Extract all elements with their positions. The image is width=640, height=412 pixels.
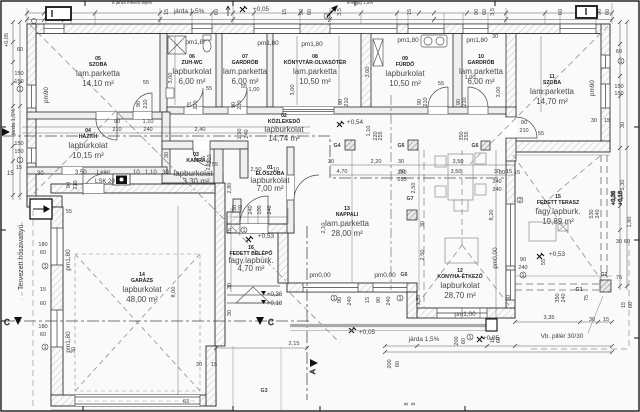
interior hazth horizontal dim bbox=[22, 127, 310, 133]
nappali table bbox=[435, 153, 486, 211]
svg-text:lapburkolat: lapburkolat bbox=[385, 69, 425, 78]
entry door eloszoba bbox=[240, 196, 268, 233]
right dim line bbox=[620, 22, 627, 290]
interior dim vertical room11 bbox=[540, 36, 542, 112]
top corner circle bbox=[32, 19, 37, 24]
svg-text:8: 8 bbox=[404, 402, 410, 405]
top dim vertical extension lines bbox=[27, 3, 612, 24]
sidewalk dashed left bbox=[32, 210, 34, 406]
garage corner dims bbox=[71, 347, 217, 368]
svg-text:Vb. pillér 30/30: Vb. pillér 30/30 bbox=[541, 333, 584, 340]
svg-text:55: 55 bbox=[438, 81, 444, 87]
svg-text:180: 180 bbox=[38, 324, 47, 330]
left circled 1 bbox=[17, 86, 23, 164]
garage cross b bbox=[75, 254, 200, 391]
garage south wall bbox=[51, 395, 216, 406]
svg-text:1,00: 1,00 bbox=[465, 75, 476, 81]
svg-text:240: 240 bbox=[386, 296, 392, 305]
svg-text:210: 210 bbox=[73, 180, 79, 189]
left dim ticks bbox=[11, 20, 22, 197]
eave dims rotated bbox=[490, 293, 634, 343]
garage east wall lower bbox=[206, 346, 216, 406]
room label 10 gardrob bbox=[459, 54, 504, 86]
svg-text:1: 1 bbox=[521, 273, 524, 279]
svg-text:10: 10 bbox=[273, 167, 279, 173]
svg-text:75: 75 bbox=[584, 295, 590, 301]
kamra east wall bbox=[214, 141, 223, 183]
belepo circled 1 bbox=[241, 227, 247, 234]
belepo east wall bbox=[278, 224, 288, 283]
terrace south dashed edge bbox=[515, 284, 600, 290]
room11 east exterior wall bbox=[601, 24, 610, 149]
svg-text:3,50: 3,50 bbox=[453, 159, 464, 165]
svg-text:2,80: 2,80 bbox=[227, 183, 233, 194]
svg-text:150: 150 bbox=[14, 149, 23, 155]
svg-text:15: 15 bbox=[282, 9, 288, 15]
terrace east dashed edge bbox=[601, 155, 607, 278]
hazth door dims bbox=[66, 119, 205, 190]
section marker A bottom bbox=[281, 347, 318, 410]
svg-text:60: 60 bbox=[40, 250, 46, 256]
svg-text:30: 30 bbox=[162, 170, 169, 176]
svg-text:lapburkolat: lapburkolat bbox=[122, 285, 162, 294]
garage window circled bbox=[42, 263, 48, 351]
garage dashed rect bbox=[75, 254, 200, 391]
svg-text:ZUH-WC: ZUH-WC bbox=[181, 60, 202, 66]
svg-text:2,50: 2,50 bbox=[420, 250, 426, 261]
55 labels bbox=[143, 75, 547, 265]
svg-text:KÖZLEKEDŐ: KÖZLEKEDŐ bbox=[268, 118, 301, 125]
svg-text:FÜRDŐ: FÜRDŐ bbox=[396, 61, 414, 68]
svg-text:90: 90 bbox=[337, 297, 343, 303]
svg-text:2,50: 2,50 bbox=[251, 167, 262, 173]
svg-text:G2: G2 bbox=[601, 272, 608, 278]
svg-text:pm1,80: pm1,80 bbox=[466, 37, 488, 44]
svg-text:15: 15 bbox=[16, 165, 22, 171]
svg-text:60: 60 bbox=[17, 47, 23, 53]
svg-text:15: 15 bbox=[407, 9, 413, 15]
door kamra bbox=[193, 141, 210, 166]
interior corridor dim bbox=[330, 165, 515, 175]
svg-text:60: 60 bbox=[616, 49, 622, 55]
svg-text:90: 90 bbox=[299, 9, 305, 15]
furdo wc bbox=[373, 39, 383, 66]
interior dim vertical gardrob bbox=[296, 36, 298, 105]
svg-text:15: 15 bbox=[621, 302, 627, 308]
leier box bbox=[113, 174, 130, 185]
svg-text:55: 55 bbox=[212, 162, 218, 168]
svg-text:150: 150 bbox=[614, 91, 623, 97]
svg-text:10,50 m²: 10,50 m² bbox=[299, 77, 331, 86]
svg-text:lam.parketta: lam.parketta bbox=[76, 69, 121, 78]
svg-text:90: 90 bbox=[521, 120, 527, 126]
svg-text:lam.parketta: lam.parketta bbox=[530, 87, 575, 96]
window top wall szoba11 bbox=[560, 24, 596, 34]
svg-text:60: 60 bbox=[496, 337, 502, 343]
exterior wall left bbox=[27, 24, 36, 206]
eloszoba west wall upper bbox=[240, 149, 248, 178]
interior garage vertical dim bbox=[177, 206, 179, 395]
svg-text:FEDETT TERASZ: FEDETT TERASZ bbox=[537, 200, 580, 206]
garage north wall bbox=[51, 184, 215, 193]
svg-text:1: 1 bbox=[468, 335, 471, 341]
left dim line inner bbox=[19, 22, 21, 200]
svg-text:30: 30 bbox=[37, 171, 44, 177]
svg-text:210: 210 bbox=[519, 128, 528, 134]
slab thin line bbox=[290, 330, 497, 332]
door eloszoba-nappali bbox=[287, 175, 319, 200]
svg-text:60: 60 bbox=[214, 9, 220, 15]
partition 09-10 bbox=[453, 34, 462, 108]
svg-text:1: 1 bbox=[43, 345, 46, 351]
chimney right tick bbox=[585, 8, 587, 15]
svg-text:SZOBA: SZOBA bbox=[543, 80, 561, 86]
window kitchen south pm100 bbox=[437, 308, 487, 318]
svg-text:lam.parketta: lam.parketta bbox=[223, 67, 268, 76]
chimney right bbox=[576, 6, 597, 18]
svg-text:90: 90 bbox=[114, 119, 120, 125]
pm rotated labels bbox=[43, 80, 596, 353]
garage east wall bbox=[215, 183, 225, 346]
terrace door nappali south east pm000 bbox=[373, 283, 407, 292]
svg-text:15: 15 bbox=[211, 362, 217, 368]
svg-text:30: 30 bbox=[227, 310, 233, 316]
partition 07-08 bbox=[267, 34, 273, 108]
svg-text:210: 210 bbox=[237, 100, 243, 109]
garage lobby door bbox=[83, 184, 104, 193]
corridor south wall mid bbox=[210, 141, 248, 149]
svg-text:GARDRÓB: GARDRÓB bbox=[232, 58, 259, 66]
svg-text:lam.parketta: lam.parketta bbox=[325, 219, 370, 228]
svg-text:HÁZT.H: HÁZT.H bbox=[79, 133, 98, 140]
garage bottom sidewalk bbox=[51, 409, 232, 411]
section line B horizontal bbox=[3, 136, 506, 178]
top circled 1 bbox=[324, 13, 330, 20]
svg-text:30: 30 bbox=[620, 122, 626, 128]
svg-text:60: 60 bbox=[605, 9, 611, 15]
exterior wall top bbox=[27, 24, 610, 34]
svg-text:100: 100 bbox=[257, 205, 263, 214]
room label 03 kamra bbox=[173, 152, 213, 186]
svg-text:30: 30 bbox=[494, 169, 500, 175]
svg-text:lapburkolat: lapburkolat bbox=[172, 67, 212, 76]
room label 11 szoba bbox=[530, 74, 575, 106]
svg-text:90: 90 bbox=[474, 9, 480, 15]
svg-text:30: 30 bbox=[164, 152, 170, 158]
svg-text:15: 15 bbox=[603, 317, 609, 323]
terrace right rotated levels bbox=[611, 191, 624, 205]
hazth south wall bbox=[27, 167, 167, 174]
svg-text:30: 30 bbox=[398, 159, 404, 165]
roof ridge kitchen bbox=[461, 150, 463, 245]
window left wall hazth bbox=[27, 148, 36, 163]
room label 12 konyha bbox=[437, 268, 482, 300]
north arrow bbox=[327, 6, 337, 17]
svg-text:pm1,00: pm1,00 bbox=[454, 311, 476, 318]
svg-text:90: 90 bbox=[376, 297, 382, 303]
svg-text:+0,05: +0,05 bbox=[4, 33, 10, 47]
svg-text:KONYHA-ÉTKEZŐ: KONYHA-ÉTKEZŐ bbox=[437, 272, 482, 280]
kitchen table bbox=[445, 238, 478, 263]
svg-text:LSK 20: LSK 20 bbox=[95, 179, 115, 185]
window top wall szoba05 bbox=[44, 24, 64, 34]
svg-text:1,10: 1,10 bbox=[366, 126, 372, 137]
svg-text:55: 55 bbox=[206, 86, 212, 92]
svg-text:48,00 m²: 48,00 m² bbox=[126, 295, 158, 304]
svg-text:8,20: 8,20 bbox=[489, 210, 495, 221]
section marker B left arrow bbox=[2, 128, 10, 136]
svg-text:lapburkolat: lapburkolat bbox=[440, 281, 480, 290]
svg-text:4,70: 4,70 bbox=[337, 169, 348, 175]
bottom right pillar dim bbox=[515, 321, 612, 323]
left dim line outer bbox=[12, 22, 14, 200]
corridor south wall west bbox=[162, 141, 193, 149]
svg-text:8,00: 8,00 bbox=[171, 287, 177, 298]
svg-text:60: 60 bbox=[461, 338, 467, 344]
partition 06-07 bbox=[216, 34, 222, 108]
svg-text:75: 75 bbox=[616, 275, 622, 281]
opening konyvtar bbox=[283, 107, 334, 114]
garage east dim extension bbox=[232, 346, 234, 408]
SE pillar vb bbox=[486, 319, 497, 331]
svg-text:14,10 m²: 14,10 m² bbox=[82, 79, 114, 88]
svg-text:30: 30 bbox=[591, 118, 597, 124]
svg-text:G7: G7 bbox=[407, 196, 414, 202]
svg-text:240: 240 bbox=[595, 209, 601, 218]
svg-text:lapburkolat: lapburkolat bbox=[68, 141, 108, 150]
svg-text:1,10: 1,10 bbox=[143, 119, 154, 125]
window top wall gardrob10 bbox=[463, 24, 488, 34]
svg-text:+0,05: +0,05 bbox=[359, 329, 376, 336]
svg-text:fagy.lapburk.: fagy.lapburk. bbox=[535, 207, 580, 216]
svg-text:3,00: 3,00 bbox=[168, 73, 174, 84]
svg-text:60: 60 bbox=[40, 301, 46, 307]
svg-text:55: 55 bbox=[241, 84, 247, 90]
room label 06 zuh-wc bbox=[172, 54, 212, 86]
svg-text:240: 240 bbox=[347, 296, 353, 305]
roof hip kitchen east bbox=[462, 245, 509, 305]
nappali south circled bbox=[331, 295, 403, 302]
room label 14 garazs bbox=[122, 272, 162, 304]
svg-text:60: 60 bbox=[628, 302, 634, 308]
pm labels bbox=[185, 37, 488, 318]
svg-text:2: 2 bbox=[518, 198, 521, 204]
kitchen south slab gray line bbox=[290, 324, 497, 327]
pillar G5 right bbox=[481, 141, 490, 150]
hazth east wall bbox=[162, 112, 170, 174]
entry pillar 30x40 bbox=[227, 212, 240, 224]
window kitchen east 90 bbox=[506, 270, 515, 300]
window garage west lower pm180 bbox=[51, 310, 63, 347]
svg-text:6,00 m²: 6,00 m² bbox=[178, 77, 205, 86]
garage west wall bbox=[51, 207, 63, 406]
roof valley kitchen west bbox=[423, 150, 425, 308]
partition 10-11 bbox=[506, 34, 516, 118]
svg-text:3,35: 3,35 bbox=[544, 315, 555, 321]
svg-text:240: 240 bbox=[518, 265, 527, 271]
svg-text:3,50: 3,50 bbox=[75, 170, 87, 176]
svg-text:pm0,00: pm0,00 bbox=[309, 272, 331, 279]
svg-text:28,70 m²: 28,70 m² bbox=[444, 291, 476, 300]
pillar G4 bbox=[345, 140, 355, 150]
svg-text:+0,18: +0,18 bbox=[267, 301, 283, 307]
svg-text:60: 60 bbox=[40, 332, 46, 338]
svg-text:C: C bbox=[4, 318, 10, 327]
roof hip nappali sw bbox=[290, 293, 340, 343]
svg-text:+0,53: +0,53 bbox=[549, 251, 566, 258]
door gardrob07 bbox=[228, 88, 247, 114]
pillar G6 kitchen bbox=[407, 210, 417, 220]
svg-text:lapburkolat: lapburkolat bbox=[264, 125, 304, 134]
kamra micro dims bbox=[164, 129, 250, 194]
svg-text:15: 15 bbox=[7, 171, 14, 177]
step wall nappali-kitchen bbox=[407, 291, 417, 318]
svg-text:3,5: 3,5 bbox=[490, 8, 496, 16]
svg-text:3,00: 3,00 bbox=[290, 85, 296, 96]
roof hip terrace short bbox=[537, 156, 600, 209]
svg-text:járda 1,5%: járda 1,5% bbox=[173, 8, 205, 15]
svg-text:240: 240 bbox=[561, 293, 567, 302]
svg-text:G4: G4 bbox=[334, 143, 341, 149]
furdo sink bbox=[421, 35, 447, 47]
bottom right dims bbox=[544, 315, 610, 323]
svg-text:pm0,00: pm0,00 bbox=[492, 247, 499, 269]
top jarda arrow bbox=[226, 6, 230, 16]
svg-text:járda 1,5%: járda 1,5% bbox=[11, 109, 17, 137]
kitchen window circled 1 bbox=[520, 272, 526, 279]
svg-text:2,40: 2,40 bbox=[195, 127, 206, 133]
room label 16 fedett belepo bbox=[228, 245, 273, 273]
svg-text:1: 1 bbox=[18, 158, 21, 164]
szoba05 south wall bbox=[27, 112, 167, 119]
svg-text:3,30 m²: 3,30 m² bbox=[182, 177, 209, 186]
window top wall konyvtar bbox=[330, 24, 397, 34]
svg-text:a-végig 1,5%: a-végig 1,5% bbox=[347, 0, 373, 5]
nappali-kitchen east wall bbox=[506, 152, 515, 318]
svg-text:180: 180 bbox=[38, 242, 47, 248]
g labels bbox=[261, 143, 608, 394]
corridor mid dims row2 bbox=[366, 126, 470, 141]
top level marker M bbox=[240, 6, 247, 12]
svg-text:15: 15 bbox=[164, 9, 170, 15]
svg-text:1,50: 1,50 bbox=[237, 129, 243, 140]
leier text bbox=[7, 170, 169, 185]
svg-text:Leier: Leier bbox=[97, 170, 110, 176]
svg-text:+0,05: +0,05 bbox=[253, 6, 270, 13]
svg-text:200: 200 bbox=[387, 359, 393, 368]
svg-text:3,00: 3,00 bbox=[496, 87, 502, 98]
second +0,05 bottom bbox=[467, 334, 500, 342]
svg-text:255: 255 bbox=[397, 177, 406, 183]
svg-text:10,50 m²: 10,50 m² bbox=[389, 79, 421, 88]
entry steps bbox=[227, 286, 280, 303]
svg-text:210: 210 bbox=[462, 97, 468, 106]
window nappali east upper 530 bbox=[506, 204, 515, 266]
roof hip terrace bbox=[513, 155, 602, 281]
svg-text:1: 1 bbox=[43, 264, 46, 270]
svg-text:55: 55 bbox=[143, 80, 149, 86]
room label 09 furdo bbox=[385, 56, 425, 88]
window top wall zuh-wc bbox=[192, 24, 212, 34]
door hazth-corridor bbox=[96, 112, 117, 140]
svg-text:1: 1 bbox=[619, 59, 622, 65]
svg-text:C: C bbox=[268, 318, 274, 327]
corridor dims bbox=[251, 159, 513, 193]
window room11 east upper bbox=[601, 55, 610, 68]
room label 01 eloszoba bbox=[250, 165, 290, 193]
svg-text:A: A bbox=[310, 369, 317, 374]
left dim numbers bbox=[4, 33, 17, 136]
garage east dim 2.15 bbox=[216, 347, 307, 349]
svg-text:+0,54: +0,54 bbox=[347, 119, 364, 126]
top dim ticks bbox=[25, 11, 614, 23]
heat pump leader bbox=[21, 222, 23, 300]
section line A vertical bbox=[306, 226, 308, 400]
svg-text:15: 15 bbox=[227, 228, 233, 234]
interior dim vertical konyvtar bbox=[338, 36, 340, 105]
garage door slab dashed bbox=[78, 400, 200, 402]
svg-text:90: 90 bbox=[597, 9, 603, 15]
pillar G2 bbox=[600, 280, 611, 292]
svg-text:15: 15 bbox=[506, 169, 512, 175]
garage door opening bbox=[75, 395, 200, 406]
svg-text:60: 60 bbox=[395, 361, 401, 367]
svg-text:pm1,80: pm1,80 bbox=[257, 40, 279, 47]
level marker symbols bbox=[246, 121, 544, 333]
svg-text:1: 1 bbox=[332, 296, 335, 302]
svg-text:210: 210 bbox=[344, 97, 350, 106]
belepo top dim bbox=[231, 206, 288, 292]
svg-text:pm1,80: pm1,80 bbox=[301, 41, 323, 48]
svg-text:15: 15 bbox=[604, 118, 610, 124]
svg-text:1: 1 bbox=[18, 87, 21, 93]
svg-text:240: 240 bbox=[492, 179, 501, 185]
svg-text:G1: G1 bbox=[576, 287, 583, 293]
svg-text:+0,36: +0,36 bbox=[267, 292, 283, 298]
svg-text:G6: G6 bbox=[401, 272, 408, 278]
svg-text:90: 90 bbox=[66, 182, 72, 188]
terrace door nappali south west pm000 bbox=[303, 283, 358, 292]
window garage west upper pm180 bbox=[51, 228, 63, 265]
room label 08 konyvtar bbox=[284, 54, 347, 86]
svg-text:90: 90 bbox=[136, 101, 142, 107]
svg-text:60: 60 bbox=[558, 9, 564, 15]
svg-text:5,30: 5,30 bbox=[620, 180, 626, 191]
room label 02 kozlekedo bbox=[264, 113, 304, 143]
svg-text:55: 55 bbox=[66, 209, 72, 215]
svg-text:28,00 m²: 28,00 m² bbox=[331, 229, 363, 238]
svg-text:210: 210 bbox=[143, 99, 149, 108]
svg-text:3,5: 3,5 bbox=[337, 8, 343, 16]
door zuh-wc bbox=[184, 88, 203, 114]
pillar extension lines bbox=[352, 150, 419, 291]
kitchen sill box bbox=[462, 308, 480, 318]
svg-text:150: 150 bbox=[14, 71, 23, 77]
svg-text:SZOBA: SZOBA bbox=[89, 62, 107, 68]
svg-text:60: 60 bbox=[482, 9, 488, 15]
door szoba05 to corridor bbox=[133, 93, 152, 119]
svg-text:30: 30 bbox=[196, 362, 202, 368]
svg-text:1,10: 1,10 bbox=[145, 170, 157, 176]
room label 05 szoba bbox=[76, 56, 121, 88]
eloszoba west wall lower bbox=[233, 199, 241, 212]
corridor north wall bbox=[167, 107, 506, 114]
svg-text:240: 240 bbox=[244, 129, 250, 138]
room11 south wall bbox=[506, 141, 610, 152]
top dim line outer bbox=[27, 12, 612, 14]
chimney left bbox=[46, 7, 71, 20]
svg-text:30: 30 bbox=[492, 34, 498, 40]
